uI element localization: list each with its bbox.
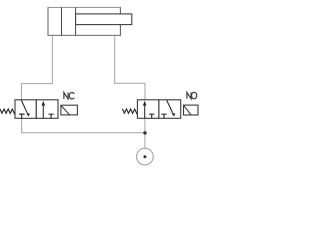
air source circle (137, 148, 154, 165)
NC valve right box (36, 100, 58, 119)
NO right box blocked port T (161, 114, 166, 118)
NC valve left box (15, 100, 36, 119)
wire from cylinder right port to NO valve top port (115, 35, 145, 99)
NO valve left box (137, 100, 159, 119)
wire from NC valve bottom port to supply bus (22, 118, 145, 132)
cylinder body (48, 7, 120, 35)
piston line 2 (75, 7, 77, 35)
piston rod (76, 14, 132, 25)
NC left box blocked port T (19, 114, 25, 118)
wire from NO valve bottom port down to air source (144, 118, 146, 148)
label NO (187, 92, 197, 99)
NO right box exhaust diagonal with arrowhead (167, 100, 174, 115)
NO left box blocked port T (149, 114, 154, 118)
NO valve right box (159, 100, 181, 119)
NC left box exhaust diagonal with arrowhead (21, 100, 28, 115)
piston line 1 (61, 7, 63, 35)
wire from cylinder left port to NC valve top port (21, 35, 52, 99)
air source center dot (143, 155, 146, 158)
NO valve solenoid (184, 105, 199, 115)
junction dot (143, 131, 146, 134)
label NC (64, 92, 74, 99)
NC right box blocked port T (49, 114, 54, 118)
NO valve return spring (122, 109, 137, 114)
NC valve solenoid (61, 105, 78, 115)
NO left box flow arrow (144, 104, 146, 119)
NC valve return spring (0, 109, 15, 114)
NC right box flow arrow (42, 104, 44, 119)
